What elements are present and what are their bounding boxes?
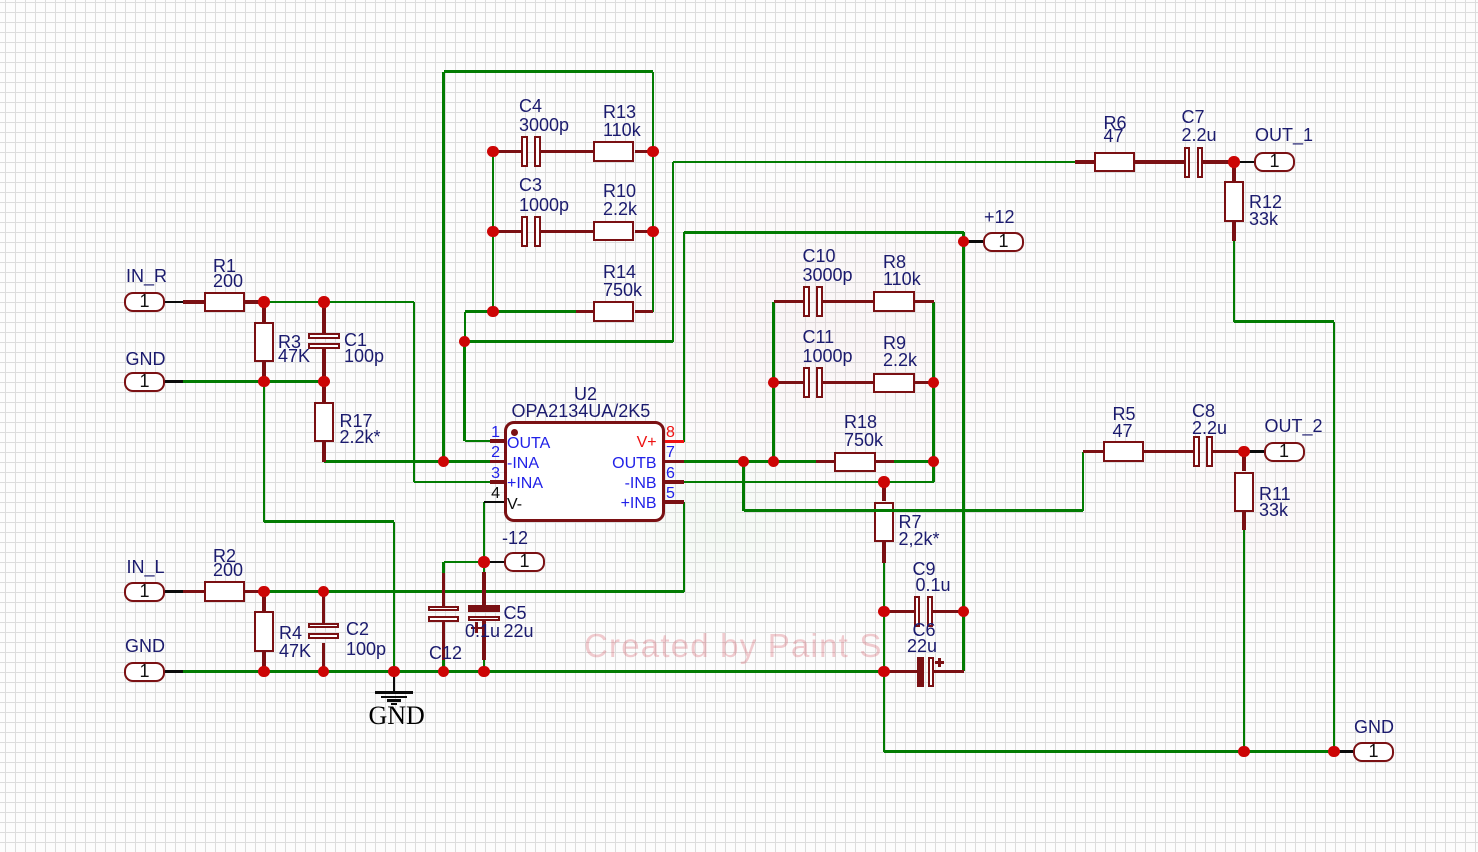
- label GND bottom-left: [125, 637, 165, 655]
- label R1: [213, 257, 236, 275]
- U2 pin 8 stub V+: [665, 440, 685, 443]
- lead R5 left: [1083, 450, 1103, 453]
- junction C5 bottom: [478, 666, 489, 677]
- junction C1/R17: [318, 376, 329, 387]
- resistor R14: [593, 301, 635, 322]
- junction C9 right: [958, 606, 969, 617]
- lead R4 bottom: [262, 652, 265, 672]
- value R12 33k: [1249, 210, 1278, 228]
- value R14 750k: [603, 281, 642, 299]
- resistor R7: [874, 502, 895, 543]
- junction R9 right: [928, 377, 939, 388]
- wire riser to OUT_1 row: [672, 162, 675, 342]
- lead R1 right: [245, 300, 264, 303]
- stub OUT_1: [1234, 161, 1254, 164]
- wire R7 bottom to ground rail: [883, 563, 886, 752]
- label C7: [1182, 108, 1205, 126]
- junction C1 top: [318, 296, 329, 307]
- label C5: [504, 604, 527, 622]
- pin header IN_L: [124, 582, 165, 602]
- resistor R18: [834, 452, 876, 473]
- value R7 2,2k*: [899, 530, 940, 548]
- junction R1/R3: [258, 296, 269, 307]
- wire +12 riser to pin8: [683, 232, 686, 442]
- lead C4 left: [493, 150, 522, 153]
- lead C6 left: [884, 670, 917, 673]
- wire down to pin1 row: [463, 342, 466, 442]
- capacitor C12: [428, 606, 460, 612]
- label C11: [803, 328, 835, 346]
- label +12: [984, 208, 1015, 226]
- pin number 8: [666, 425, 675, 441]
- lead R18 right: [876, 460, 894, 463]
- wire R14 row left: [465, 310, 576, 313]
- pin number 7: [666, 445, 675, 461]
- pin header IN_R: [124, 292, 165, 312]
- label GND bottom-right: [1354, 718, 1394, 736]
- wire GND top row: [183, 380, 324, 383]
- watermark text Created by Paint S: [584, 629, 883, 662]
- stub IN_L: [165, 590, 183, 593]
- pin number 1: [300, 425, 500, 441]
- wire GND net horizontal jog: [264, 520, 394, 523]
- junction C12 bottom: [438, 666, 449, 677]
- wire V- drop: [483, 502, 486, 562]
- lead C11-R9: [822, 381, 874, 384]
- lead C5 bottom: [482, 621, 485, 661]
- U2 pin 2 stub: [490, 460, 504, 463]
- wire R18 to right rail: [894, 460, 934, 463]
- capacitor C2: [308, 623, 340, 629]
- value C11 1000p: [803, 347, 853, 365]
- wire stub to C5: [483, 562, 486, 572]
- lead C4-R13: [541, 150, 593, 153]
- pin header OUT_2: [1264, 442, 1305, 462]
- resistor R13: [593, 141, 635, 162]
- U2 pin 3 stub: [490, 480, 504, 483]
- junction C9 left: [878, 606, 889, 617]
- stub GND left-bottom: [165, 670, 183, 673]
- value C5 22u: [504, 622, 534, 640]
- label R10: [603, 182, 636, 200]
- wire jog R14 row down: [464, 312, 467, 342]
- label R9: [883, 334, 906, 352]
- label R8: [883, 253, 906, 271]
- label OUT_2: [1265, 417, 1323, 435]
- lead R13 right: [635, 150, 654, 153]
- value R11 33k: [1259, 501, 1288, 519]
- lead C3-R10: [541, 230, 593, 233]
- wire to U2 pin1: [465, 440, 491, 443]
- value R2 200: [213, 561, 243, 579]
- junction C2 top: [318, 586, 329, 597]
- label IN_R: [126, 267, 167, 285]
- wire R12 jog: [1234, 320, 1334, 323]
- capacitor C10: [803, 286, 810, 317]
- junction -12 node: [478, 556, 489, 567]
- lead C12 bottom: [442, 621, 445, 661]
- op-amp U2 OPA2134UA/2K5 body: [504, 421, 665, 522]
- junction C4 left: [487, 146, 498, 157]
- value R13 110k: [603, 121, 641, 139]
- resistor R8: [873, 291, 915, 312]
- label U2: [574, 385, 597, 403]
- lead R6 left: [1075, 160, 1094, 163]
- resistor R10: [593, 221, 635, 242]
- wire R11 drop: [1243, 530, 1246, 752]
- pin name V+: [457, 435, 657, 451]
- lead R12 bottom: [1232, 222, 1235, 241]
- junction R2/R4: [258, 586, 269, 597]
- junction R18 right: [928, 456, 939, 467]
- wire inner rail C4-C3-R14: [492, 152, 495, 312]
- label R5: [1113, 405, 1136, 423]
- lead R11 top: [1242, 452, 1245, 472]
- label R7: [899, 513, 922, 531]
- lead R1 left: [183, 300, 204, 303]
- stub -12: [484, 561, 504, 564]
- lead R17 top: [322, 382, 325, 402]
- resistor R6: [1094, 152, 1136, 173]
- pin name +INB: [457, 496, 657, 512]
- junction R10 right: [647, 226, 658, 237]
- wire R17 to U2 pin2: [324, 460, 490, 463]
- label R18: [844, 413, 877, 431]
- lead R2 left: [183, 590, 204, 593]
- resistor R17: [314, 402, 335, 443]
- wire C12 bottom stub: [442, 660, 445, 671]
- capacitor C8: [1193, 436, 1200, 467]
- wire riser to R5: [1082, 452, 1085, 511]
- pin name -INB: [457, 476, 657, 492]
- pin number 3: [300, 466, 500, 482]
- U2 pin 4 stub V-: [484, 501, 504, 504]
- lead R4 top: [262, 592, 265, 611]
- lead R9 right: [915, 381, 934, 384]
- lead C9 right: [932, 610, 964, 613]
- stub +12: [964, 240, 984, 243]
- junction R13 right: [647, 146, 658, 157]
- lead R10 right: [635, 230, 654, 233]
- value C3 1000p: [519, 196, 569, 214]
- pin header OUT_1: [1254, 152, 1295, 172]
- value R8 110k: [883, 270, 921, 288]
- resistor R4: [254, 611, 275, 652]
- lead R3 top: [262, 302, 265, 322]
- wire bottom ground rail: [884, 750, 1334, 753]
- label C9: [913, 560, 936, 578]
- resistor R11: [1234, 472, 1255, 513]
- lead R5-C8: [1144, 450, 1195, 453]
- label R11: [1259, 485, 1291, 503]
- value C2 100p: [346, 640, 386, 658]
- lead R7 bottom: [882, 542, 885, 563]
- junction OUTB drop: [738, 456, 749, 467]
- value C8 2.2u: [1192, 419, 1227, 437]
- wire R12 drop: [1233, 241, 1236, 322]
- stub GND right: [1334, 750, 1353, 753]
- label OUT_1: [1255, 126, 1313, 144]
- pin number 6: [666, 466, 675, 482]
- label R17: [340, 412, 373, 430]
- watermark ghost blobs: [600, 170, 1040, 500]
- pin number 2: [300, 445, 500, 461]
- stub OUT_2: [1244, 450, 1264, 453]
- value C9 0.1u: [916, 576, 951, 594]
- lead R11 bottom: [1242, 512, 1245, 530]
- ground symbol: [393, 671, 396, 691]
- wire IN_R net vertical to pin3: [413, 302, 416, 482]
- pin name OUTA: [507, 436, 550, 452]
- wire -12 row: [444, 561, 485, 564]
- junction R11/ground rail: [1238, 746, 1249, 757]
- label R3: [278, 333, 301, 351]
- pin number 5: [666, 486, 675, 502]
- wire C10/C11 left rail: [772, 302, 775, 462]
- pin header GND bottom-right: [1353, 742, 1394, 762]
- junction OUT_1: [1228, 156, 1239, 167]
- value R3 47K: [278, 347, 310, 365]
- capacitor C11: [803, 367, 810, 398]
- label C2: [346, 620, 369, 638]
- junction R3/GND: [258, 376, 269, 387]
- wire IN_L row: [264, 590, 684, 593]
- label C6: [913, 621, 936, 639]
- lead C6 right: [934, 670, 964, 673]
- wire C10/C11 right rail: [932, 302, 935, 482]
- junction C6 left: [878, 666, 889, 677]
- junction C2 bottom: [318, 666, 329, 677]
- wire C5 bottom stub: [483, 660, 486, 671]
- junction ground symbol: [388, 666, 399, 677]
- lead R12 top: [1232, 162, 1235, 181]
- label C8: [1192, 402, 1215, 420]
- lead R18 left: [816, 460, 834, 463]
- wire stub to C12: [442, 562, 445, 573]
- lead C7 right: [1203, 160, 1235, 163]
- junction C3 left: [487, 226, 498, 237]
- lead C8 right: [1211, 450, 1244, 453]
- value C7 2.2u: [1182, 126, 1217, 144]
- value R17 2.2k*: [340, 428, 381, 446]
- stub IN_R: [165, 301, 183, 304]
- lead C10 left: [774, 300, 806, 303]
- pin name V-: [507, 497, 522, 513]
- lead R7 top: [882, 482, 885, 502]
- lead C1 top: [322, 302, 325, 334]
- wire right vertical to GND: [1333, 322, 1336, 752]
- pin header +12: [983, 232, 1024, 252]
- value R5 47: [1113, 422, 1133, 440]
- label R13: [603, 103, 636, 121]
- wire +12 jog down: [962, 232, 965, 241]
- wire OUTB drop: [742, 462, 745, 511]
- wire feedback box top: [444, 70, 654, 73]
- wire pin6 row: [684, 481, 934, 484]
- junction OUT_2: [1238, 446, 1249, 457]
- U2 pin 1 stub: [490, 439, 504, 442]
- value C10 3000p: [803, 266, 853, 284]
- pin number 4: [300, 486, 500, 502]
- capacitor C3: [521, 216, 528, 247]
- wire OUT_1 row to R6: [673, 161, 1075, 164]
- lead C12 top: [442, 573, 445, 606]
- label R12: [1249, 193, 1282, 211]
- lead C10-R8: [822, 300, 874, 303]
- label -12: [502, 529, 528, 547]
- lead C3 left: [493, 230, 522, 233]
- lead R3 bottom: [262, 362, 265, 382]
- wire GND bottom-left row: [183, 670, 884, 673]
- lead R6-C7: [1135, 160, 1184, 163]
- wire GND net vertical from R3: [263, 382, 266, 522]
- junction C11 left: [768, 377, 779, 388]
- ground symbol text GND: [369, 703, 425, 729]
- value U2 OPA2134UA/2K5: [512, 402, 651, 420]
- lead C11 left: [774, 381, 806, 384]
- lead C1 bottom: [322, 348, 325, 382]
- label C12: [429, 644, 462, 662]
- resistor R9: [873, 373, 915, 394]
- label C4: [519, 97, 542, 115]
- capacitor C7: [1184, 147, 1191, 178]
- value R10 2.2k: [603, 200, 637, 218]
- label C10: [803, 247, 836, 265]
- lead C2 bottom: [322, 643, 325, 672]
- wire feedback box right edge: [652, 72, 655, 312]
- lead R17 bottom: [322, 442, 325, 462]
- wire to U2 pin3: [414, 481, 490, 484]
- wire OUTB long feedback row: [744, 509, 1084, 512]
- lead R8 right: [915, 300, 934, 303]
- junction pin2 node: [438, 456, 449, 467]
- pin name -INA: [507, 456, 539, 472]
- capacitor C4: [521, 136, 528, 167]
- label GND top: [126, 350, 166, 368]
- junction R14 row: [487, 306, 498, 317]
- value R1 200: [213, 272, 243, 290]
- wire feedback box left edge: [442, 72, 445, 462]
- pin header -12: [504, 552, 545, 572]
- capacitor C9: [914, 596, 921, 627]
- label R2: [213, 547, 236, 565]
- junction R7 top: [878, 476, 889, 487]
- wire pin5 drop: [683, 502, 686, 592]
- pin header GND bottom-left: [124, 662, 165, 682]
- resistor R1: [204, 292, 246, 313]
- U2 pin 5 stub: [665, 500, 685, 503]
- value C6 22u: [907, 637, 937, 655]
- label C3: [519, 176, 542, 194]
- value C1 100p: [344, 347, 384, 365]
- value C4 3000p: [519, 116, 569, 134]
- capacitor C1: [308, 333, 340, 339]
- pin header GND top: [124, 372, 165, 392]
- junction node A: [459, 336, 470, 347]
- wire node A horizontal: [465, 340, 674, 343]
- lead C2 top: [322, 592, 325, 623]
- pin name +INA: [507, 476, 543, 492]
- junction left rail/pin7: [768, 456, 779, 467]
- U2 pin 7 stub: [665, 460, 685, 463]
- resistor R3: [254, 322, 275, 363]
- capacitor C5: [468, 605, 501, 612]
- junction GND pin rail: [1328, 746, 1339, 757]
- stub GND top: [165, 380, 183, 383]
- junction R4 bottom: [258, 666, 269, 677]
- label R6: [1104, 114, 1127, 132]
- resistor R2: [204, 581, 246, 602]
- wire pin7 row to R18: [684, 460, 816, 463]
- wire IN_R net horizontal: [264, 301, 414, 304]
- label R4: [279, 624, 302, 642]
- lead C9 left: [884, 610, 915, 613]
- label IN_L: [127, 558, 165, 576]
- U2 pin 6 stub: [665, 480, 685, 483]
- junction +12: [958, 236, 969, 247]
- resistor R12: [1224, 181, 1245, 222]
- label C1: [344, 331, 367, 349]
- value R18 750k: [844, 431, 883, 449]
- capacitor C6: [917, 657, 924, 687]
- lead C5 top: [482, 572, 485, 606]
- value R6 47: [1104, 127, 1124, 145]
- label R14: [603, 263, 636, 281]
- value R4 47K: [279, 642, 311, 660]
- lead R14 right: [635, 310, 654, 313]
- lead R14 left: [576, 310, 593, 313]
- lead R2 right: [245, 590, 264, 593]
- resistor R5: [1103, 441, 1145, 462]
- wire +12 row: [684, 231, 964, 234]
- value C12 0.1u: [465, 622, 500, 640]
- value R9 2.2k: [883, 351, 917, 369]
- pin name OUTB: [457, 456, 657, 472]
- wire GND net vertical to ground: [393, 522, 396, 672]
- wire +12 vertical rail: [962, 241, 965, 671]
